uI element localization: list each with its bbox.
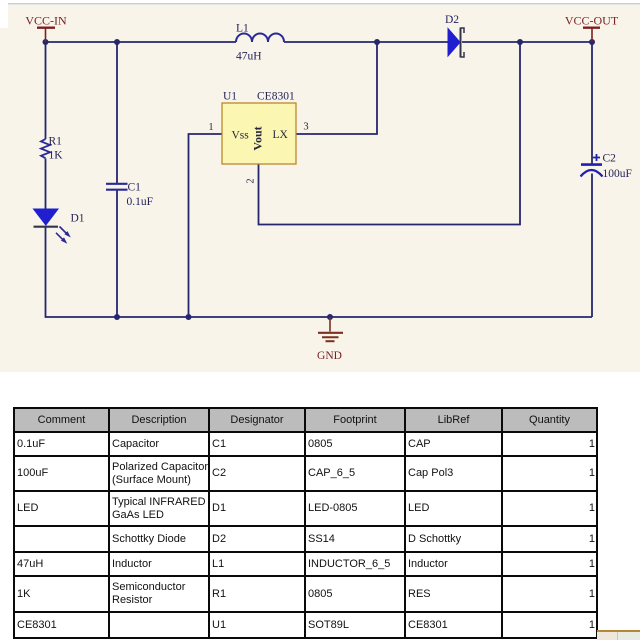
corner of overlapping window bottom-right (597, 630, 640, 640)
power port VCC-IN (25, 14, 67, 43)
LED D1 (34, 209, 71, 244)
ground symbol GND (317, 317, 343, 362)
schematic sheet background (0, 0, 640, 372)
label R1 designator (49, 136, 63, 148)
label D2 designator (445, 14, 459, 26)
power port VCC-OUT (565, 14, 619, 43)
svg-text:CE8301: CE8301 (257, 91, 295, 103)
capacitor C2 polarized (581, 154, 603, 177)
wire U1 pin2 feedback to output node (259, 42, 521, 225)
wire D1 cathode down to bottom net (46, 227, 118, 317)
label D1 designator (71, 213, 85, 225)
wire C2 lower lead (591, 174, 593, 318)
node junction GND (327, 314, 333, 320)
svg-text:C2: C2 (603, 153, 617, 165)
svg-text:LX: LX (273, 129, 289, 141)
svg-text:VCC-OUT: VCC-OUT (565, 14, 619, 28)
pin name Vss (232, 130, 250, 142)
label C1 designator (128, 182, 142, 194)
label U1 designator (223, 91, 237, 103)
svg-text:D2: D2 (445, 14, 459, 26)
svg-text:U1: U1 (223, 91, 237, 103)
pin number 1 (208, 122, 213, 133)
label L1 value 47uH (236, 51, 262, 63)
node junction C1 bottom (114, 314, 120, 320)
svg-text:0.1uF: 0.1uF (127, 196, 154, 208)
label U1 value CE8301 (257, 91, 295, 103)
svg-text:1: 1 (208, 122, 213, 133)
wire R1 to D1 (45, 159, 47, 210)
node junction LX (374, 39, 380, 45)
label R1 value 1K (49, 150, 64, 162)
pin name LX (273, 129, 289, 141)
wire C1 branch upper (116, 42, 118, 183)
wire U1 pin3 to LX node (296, 42, 377, 134)
svg-text:GND: GND (317, 350, 342, 362)
label C2 value 100uF (603, 168, 632, 180)
svg-text:VCC-IN: VCC-IN (25, 14, 67, 28)
pin name Vout (rotated) (250, 126, 264, 150)
svg-text:Vout: Vout (250, 126, 264, 150)
wire D2 cathode to VCC-OUT (462, 41, 592, 43)
svg-text:2: 2 (245, 178, 256, 183)
inductor L1 coil (236, 34, 284, 43)
svg-text:R1: R1 (49, 136, 63, 148)
diode D2 (schottky) (448, 28, 464, 58)
pin number 3 (303, 122, 308, 133)
node junction VCC-IN (43, 39, 49, 45)
label C2 designator (603, 153, 617, 165)
wire bottom GND net (117, 316, 592, 318)
label C1 value 0.1uF (127, 196, 154, 208)
resistor R1 zigzag (41, 139, 50, 158)
svg-text:100uF: 100uF (603, 168, 632, 180)
svg-text:3: 3 (303, 122, 308, 133)
wire C2 upper lead (591, 42, 593, 164)
svg-text:47uH: 47uH (236, 51, 262, 63)
pin number 2 (rotated) (245, 178, 256, 183)
capacitor C1 (106, 184, 128, 190)
label L1 designator (236, 23, 249, 35)
BOM table (13, 407, 598, 639)
svg-text:D1: D1 (71, 213, 85, 225)
wire U1 pin1 to ground rail (189, 134, 223, 317)
wire C1 branch lower (116, 191, 118, 318)
svg-text:C1: C1 (128, 182, 142, 194)
svg-text:Vss: Vss (232, 130, 250, 142)
wire left branch down to R1 (45, 42, 47, 139)
node junction pin1 bottom (186, 314, 192, 320)
svg-text:L1: L1 (236, 23, 249, 35)
node junction feedback top (517, 39, 523, 45)
node junction C1 top (114, 39, 120, 45)
op-amp U1 body (CE8301) (222, 103, 296, 164)
wire top net VCC-IN to L1 (46, 41, 237, 43)
node junction VCC-OUT (589, 39, 595, 45)
wire L1 to D2 anode (284, 41, 448, 43)
svg-text:1K: 1K (49, 150, 64, 162)
